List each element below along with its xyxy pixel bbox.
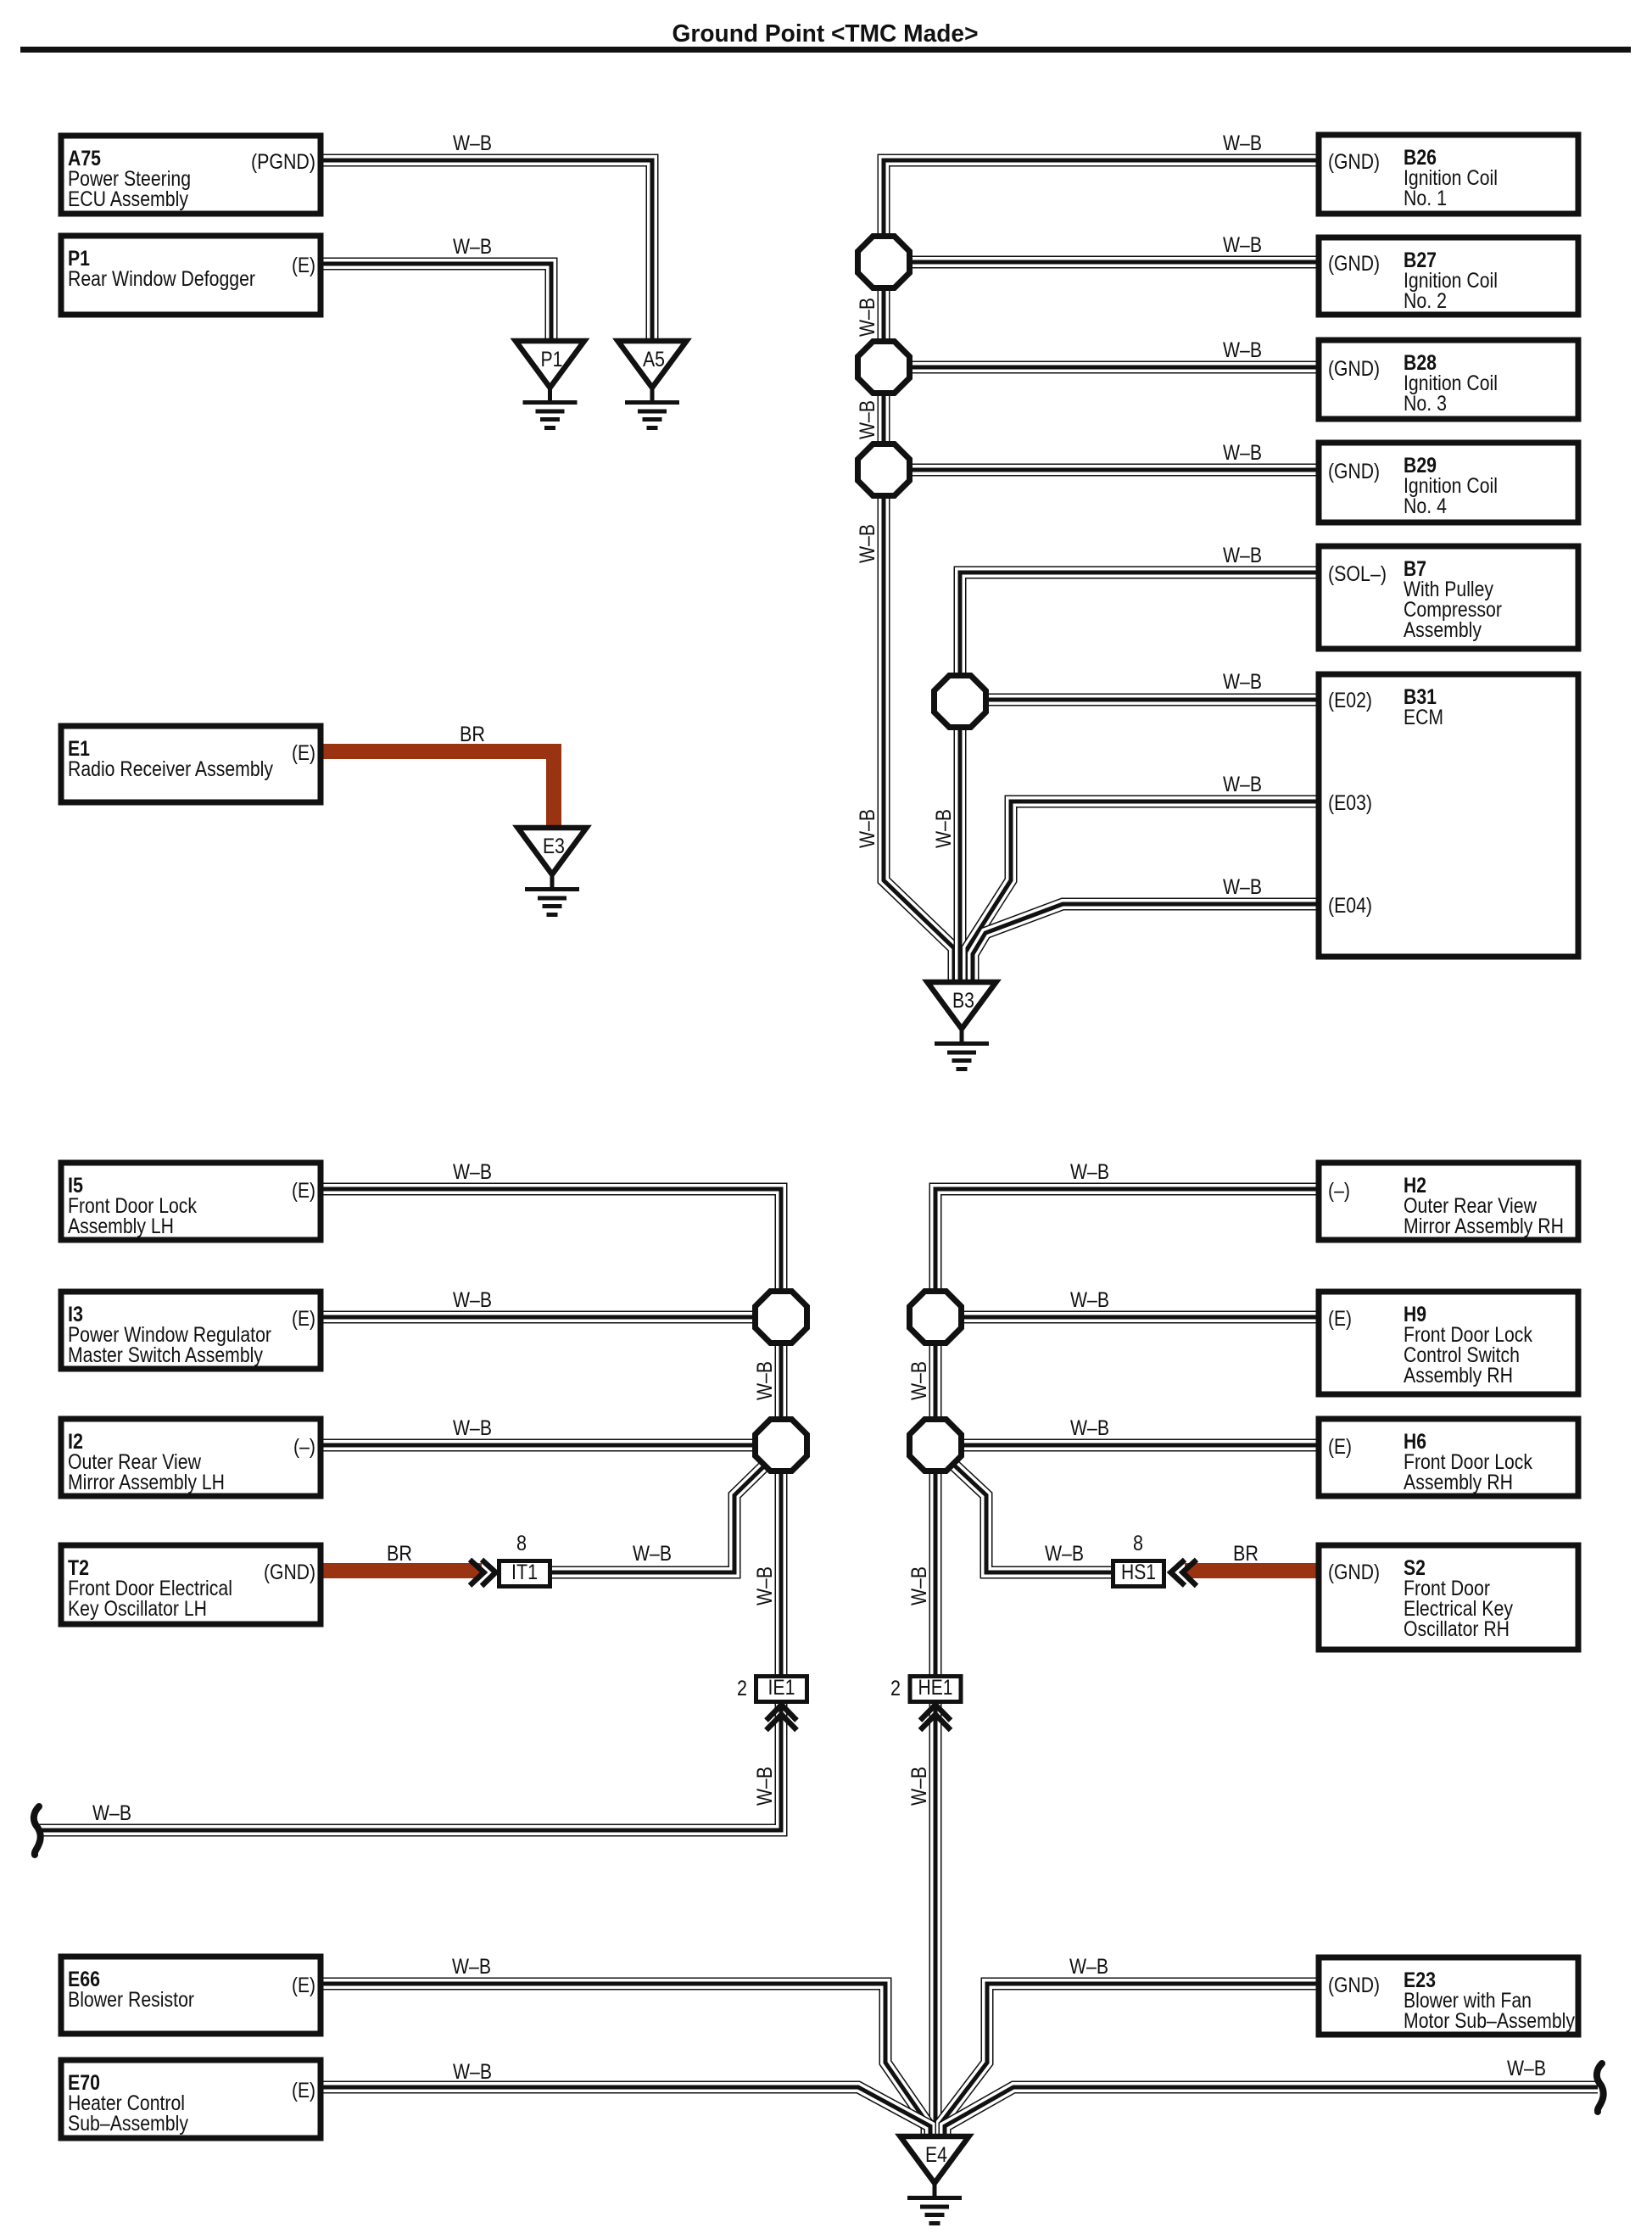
svg-text:Mirror Assembly RH: Mirror Assembly RH [1404,1214,1564,1238]
svg-text:E4: E4 [925,2143,947,2167]
svg-text:(E03): (E03) [1328,791,1372,815]
svg-text:W–B: W–B [907,1566,931,1605]
svg-text:W–B: W–B [856,400,879,439]
svg-text:BR: BR [387,1542,412,1566]
svg-text:(E): (E) [292,1307,315,1331]
svg-text:W–B: W–B [1070,1416,1109,1440]
svg-text:(–): (–) [1328,1179,1350,1203]
svg-text:No. 3: No. 3 [1404,392,1447,416]
svg-text:No. 1: No. 1 [1404,187,1447,210]
svg-text:W–B: W–B [856,524,879,563]
svg-text:ECM: ECM [1404,706,1443,729]
svg-text:W–B: W–B [1069,1955,1108,1979]
svg-text:E3: E3 [543,835,565,858]
svg-text:(PGND): (PGND) [251,150,315,174]
svg-text:W–B: W–B [753,1361,777,1400]
svg-text:Blower Resistor: Blower Resistor [68,1988,194,2012]
svg-text:(GND): (GND) [264,1561,315,1584]
svg-text:W–B: W–B [907,1767,931,1806]
svg-text:(E): (E) [292,1179,315,1203]
svg-text:(GND): (GND) [1328,1561,1380,1584]
svg-text:W–B: W–B [753,1767,777,1806]
svg-text:Sub–Assembly: Sub–Assembly [68,2112,188,2136]
svg-text:2: 2 [737,1677,747,1700]
svg-text:2: 2 [890,1677,901,1700]
svg-text:8: 8 [516,1532,527,1555]
svg-text:B3: B3 [952,989,974,1013]
svg-text:8: 8 [1133,1532,1143,1555]
svg-text:W–B: W–B [453,1416,492,1440]
svg-text:Assembly: Assembly [1404,618,1482,642]
svg-text:W–B: W–B [452,1955,491,1979]
svg-text:HS1: HS1 [1121,1561,1156,1584]
svg-text:W–B: W–B [1223,773,1262,796]
svg-text:W–B: W–B [453,1160,492,1184]
svg-text:W–B: W–B [453,131,492,155]
svg-text:W–B: W–B [1223,441,1262,465]
svg-text:(E04): (E04) [1328,894,1372,918]
svg-text:W–B: W–B [932,809,956,848]
svg-text:IE1: IE1 [768,1676,795,1700]
svg-text:W–B: W–B [1507,2057,1546,2080]
svg-text:W–B: W–B [453,2060,492,2084]
svg-text:Radio Receiver Assembly: Radio Receiver Assembly [68,757,273,781]
svg-text:W–B: W–B [92,1801,131,1825]
svg-text:(GND): (GND) [1328,1974,1380,1997]
svg-text:(GND): (GND) [1328,150,1380,174]
svg-text:IT1: IT1 [511,1561,538,1584]
svg-text:W–B: W–B [1070,1160,1109,1184]
svg-text:W–B: W–B [453,1288,492,1312]
svg-text:Oscillator RH: Oscillator RH [1404,1617,1510,1641]
svg-text:W–B: W–B [907,1361,931,1400]
svg-text:Assembly RH: Assembly RH [1404,1364,1513,1388]
svg-text:No. 2: No. 2 [1404,289,1447,313]
svg-text:Assembly LH: Assembly LH [68,1214,174,1238]
svg-text:(E): (E) [292,1974,315,1997]
svg-text:W–B: W–B [1223,875,1262,899]
svg-text:(–): (–) [293,1435,315,1459]
svg-text:P1: P1 [541,348,563,371]
svg-text:A5: A5 [643,348,665,371]
svg-text:W–B: W–B [856,809,879,848]
svg-text:(E): (E) [1328,1435,1352,1459]
svg-text:Rear Window Defogger: Rear Window Defogger [68,267,255,291]
svg-text:No. 4: No. 4 [1404,494,1447,518]
svg-text:W–B: W–B [633,1542,672,1566]
svg-text:W–B: W–B [753,1566,777,1605]
svg-text:W–B: W–B [453,235,492,259]
svg-text:Ground Point <TMC Made>: Ground Point <TMC Made> [673,20,979,47]
svg-text:(E): (E) [292,741,315,765]
svg-text:W–B: W–B [1223,131,1262,155]
svg-text:(GND): (GND) [1328,357,1380,381]
svg-text:W–B: W–B [1223,233,1262,257]
svg-text:W–B: W–B [1070,1288,1109,1312]
svg-text:BR: BR [1233,1542,1259,1566]
svg-text:ECU Assembly: ECU Assembly [68,187,188,211]
svg-text:Motor Sub–Assembly: Motor Sub–Assembly [1404,2009,1575,2033]
svg-text:Assembly RH: Assembly RH [1404,1471,1513,1494]
svg-text:Master Switch Assembly: Master Switch Assembly [68,1343,263,1367]
svg-text:(E02): (E02) [1328,689,1372,712]
svg-text:W–B: W–B [1223,544,1262,567]
svg-text:Key Oscillator LH: Key Oscillator LH [68,1597,207,1621]
svg-text:W–B: W–B [1223,338,1262,362]
svg-text:(GND): (GND) [1328,460,1380,483]
svg-text:(GND): (GND) [1328,252,1380,276]
svg-text:W–B: W–B [1223,670,1262,694]
svg-text:W–B: W–B [856,298,879,337]
svg-text:(E): (E) [1328,1307,1352,1331]
svg-text:(SOL–): (SOL–) [1328,562,1387,586]
svg-text:W–B: W–B [1045,1542,1084,1566]
svg-text:HE1: HE1 [918,1676,953,1700]
svg-text:(E): (E) [292,2079,315,2102]
svg-text:(E): (E) [292,254,315,277]
svg-text:Mirror Assembly LH: Mirror Assembly LH [68,1471,225,1494]
svg-text:BR: BR [460,723,485,746]
